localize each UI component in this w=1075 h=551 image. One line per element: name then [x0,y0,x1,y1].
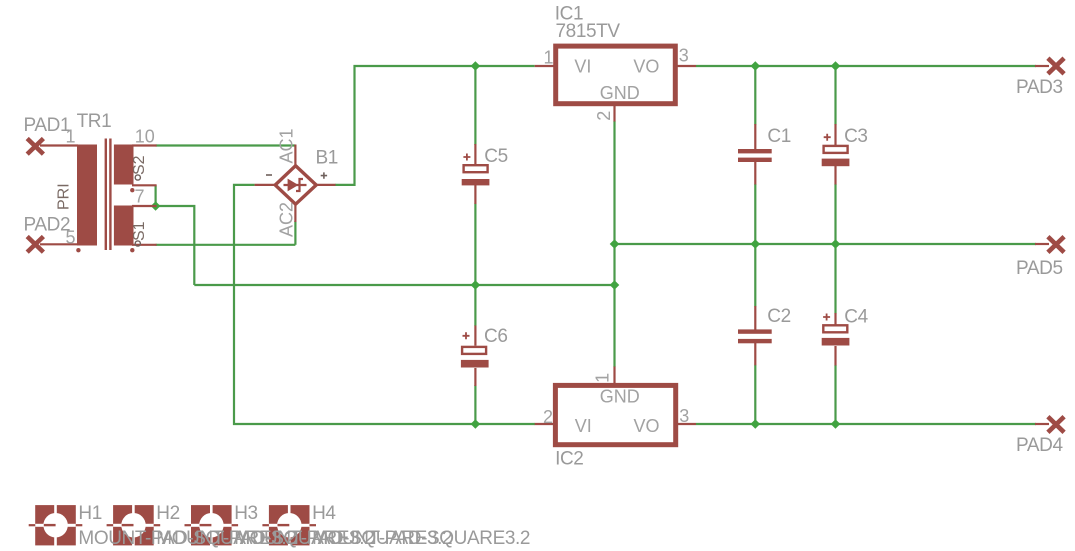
node C4 bottom rail [831,419,841,429]
plus sign C4 [823,314,830,321]
svg-text:C2: C2 [767,306,791,327]
svg-text:PAD2: PAD2 [24,215,71,236]
diode cathode with schottky hooks [296,179,303,191]
wire C1 top [754,66,756,125]
wire C1 bottom [754,184,756,244]
node C3 middle rail [831,239,841,249]
svg-text:PAD4: PAD4 [1016,435,1063,456]
top pin stub [834,313,836,325]
wire B1 minus down to bottom rail into IC2 [234,185,535,424]
wire S1 bottom pin stub [132,244,157,246]
svg-text:1: 1 [544,48,554,68]
bottom pin stub [474,368,476,386]
pin minus stub [255,184,276,186]
phase circle S2 [135,175,140,180]
wire pin 10 stub [132,144,157,146]
svg-text:5: 5 [66,228,76,248]
svg-text:7815TV: 7815TV [556,21,621,42]
capacitor C5 [462,144,490,204]
svg-text:C4: C4 [844,307,868,328]
top pin stub [474,326,476,346]
capacitor C1 [738,124,772,185]
bottom pin stub [754,161,756,185]
node C1 top rail [751,61,761,71]
wire C4 bottom [834,365,836,424]
pad PAD5 [1035,237,1064,253]
plus sign C5 [463,154,470,161]
secondary winding S1 [114,206,134,246]
pin 3 stub [674,423,696,425]
plate bottom [738,339,772,343]
wire C6 top [474,285,476,326]
wire C5 bottom [474,204,476,286]
svg-text:S1: S1 [131,221,148,241]
svg-text:2: 2 [543,407,553,427]
plus plate hollow [823,325,847,332]
node gnd middle rail [610,239,620,249]
svg-text:AC1: AC1 [277,128,297,163]
transformer TR1 [40,139,157,253]
wire C5 top [474,66,476,145]
wire S2 bottom pin stub [132,184,157,186]
core bar left [105,139,107,251]
top pin stub [754,124,756,150]
svg-text:GND: GND [600,83,640,103]
pin 3 stub [674,65,696,67]
svg-text:H4: H4 [312,503,336,524]
svg-text:C5: C5 [484,146,508,167]
polarity dot PRI [76,248,80,252]
capacitor C2 [738,306,772,365]
svg-text:2: 2 [594,111,614,121]
minus sign B1 [266,174,272,176]
wire pin 5 PAD2 to primary [40,243,78,245]
plus sign C3 [824,134,831,141]
capacitor C4 [822,313,850,366]
svg-text:C6: C6 [484,326,508,347]
wire S1 bottom to AC2 [156,244,296,246]
node A transformer secondary tap [151,201,161,211]
pin 2 stub [535,423,557,425]
capacitor C3 [822,124,850,185]
svg-text:VO: VO [634,416,660,436]
voltage regulator IC2 [535,367,696,445]
svg-text:TR1: TR1 [77,111,112,132]
wire top rail left with drop to B1 plus [335,66,535,185]
primary winding PRI [77,145,97,246]
svg-text:GND: GND [600,387,640,407]
pad PAD1 [27,139,43,155]
pin plus stub [316,184,336,186]
mounting hole H3 [185,504,239,546]
plus plate hollow [824,146,848,153]
svg-text:10: 10 [135,126,155,146]
svg-text:VI: VI [575,416,592,436]
wire S1 top pin stub [132,205,157,207]
wire junction A to left rail [156,206,195,285]
minus plate filled [822,338,850,346]
svg-text:PAD5: PAD5 [1016,258,1063,279]
body box [555,385,675,444]
minus plate filled [822,159,850,167]
wire AC2 stub to S1 wire [294,221,296,245]
minus plate filled [461,360,489,368]
mounting hole H4 [262,504,316,546]
diamond body [275,166,316,205]
mounting hole H2 [107,504,161,546]
plus sign C6 [463,332,470,339]
secondary winding S2 [114,145,134,185]
wire C2 top [754,244,756,307]
svg-text:C1: C1 [767,126,791,147]
voltage regulator IC1 [535,46,696,121]
top pin stub [474,144,476,164]
svg-text:PRI: PRI [56,183,73,210]
pin AC2 stub [294,204,296,223]
mounting hole H1 [29,504,83,546]
pin 1 stub [535,65,557,67]
wire C2 bottom [754,365,756,424]
bottom pin stub [474,185,476,204]
pad PAD2 [27,237,43,253]
node C3 top rail [831,61,841,71]
top pin stub [754,306,756,330]
svg-text:1: 1 [66,126,76,146]
plus sign B1 [321,172,327,178]
minus plate filled [462,179,490,185]
wire C3 top [834,66,836,125]
core bar right [109,139,111,251]
wire gnd vertical IC1 to IC2 [613,121,615,367]
wire left rail [194,284,614,286]
svg-text:B1: B1 [316,147,338,168]
diode bar line [284,184,307,186]
wire C4 top [834,244,836,314]
wire S2 bottom to junction A [155,185,157,206]
svg-text:PAD1: PAD1 [24,115,71,136]
svg-text:H1: H1 [78,503,102,524]
bottom pin stub [754,342,756,366]
wire top rail right [696,65,1036,67]
capacitor C6 [461,326,489,387]
pad PAD4 [1035,417,1064,433]
plus plate hollow [462,347,486,354]
svg-text:1: 1 [592,373,612,383]
svg-text:H3: H3 [234,503,258,524]
node C1 middle rail [751,239,761,249]
polarity dot S1 [130,248,134,252]
wire bottom rail right [696,423,1036,425]
diode triangle [288,179,299,192]
pin 2 stub [613,104,615,122]
top pin stub [834,124,836,145]
svg-text:MOUNT-PAD-SQUARE3.2: MOUNT-PAD-SQUARE3.2 [312,528,530,549]
node C2 bottom rail [751,419,761,429]
plate top [738,329,772,333]
node C6 bottom rail [471,419,481,429]
node C5 top rail [471,61,481,71]
body box [556,46,676,104]
wire C6 bottom [474,385,476,424]
plate top [738,149,772,153]
plate bottom [738,158,772,162]
pad PAD3 [1035,58,1064,74]
svg-text:IC2: IC2 [555,449,583,470]
wire middle rail [615,243,1037,245]
bottom pin stub [834,346,836,366]
svg-text:VI: VI [574,57,591,77]
bridge rectifier B1 [255,145,336,223]
wire pin 1 PAD1 to primary [40,144,78,146]
svg-text:3: 3 [679,46,689,66]
svg-text:3: 3 [679,406,689,426]
phase circle S1 [135,241,140,246]
svg-text:PAD3: PAD3 [1016,77,1063,98]
svg-text:7: 7 [135,187,145,207]
svg-text:H2: H2 [156,503,180,524]
wire S2 pin10 to AC1 [156,144,296,146]
wire C3 bottom [834,184,836,244]
svg-text:C3: C3 [844,126,868,147]
pin AC1 stub [294,145,296,167]
node gnd left rail [610,280,620,290]
pin 1 stub [613,367,615,387]
polarity dot S2 [130,188,134,192]
bottom pin stub [834,166,836,185]
plus plate hollow [464,165,488,172]
svg-text:S2: S2 [131,155,148,175]
node C5 left rail [471,280,481,290]
svg-text:VO: VO [633,57,659,77]
svg-text:AC2: AC2 [277,202,297,237]
